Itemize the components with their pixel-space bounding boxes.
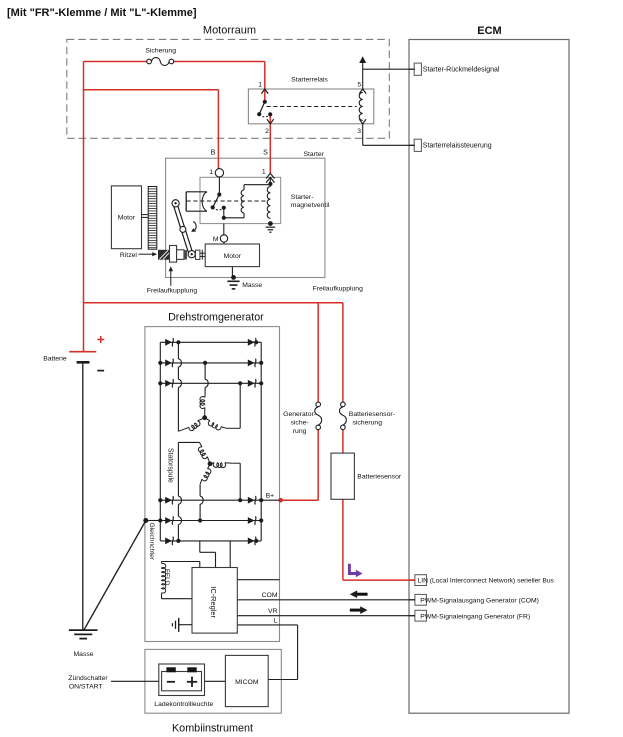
svg-text:Batteriesensor: Batteriesensor [357,473,402,480]
svg-text:Ritzel: Ritzel [120,252,137,259]
svg-text:PWM-Signalausgang Generator (C: PWM-Signalausgang Generator (COM) [420,598,539,605]
svg-text:PWM-Signaleingang Generator (F: PWM-Signaleingang Generator (FR) [420,614,530,621]
svg-text:Starterrelaissteuerung: Starterrelaissteuerung [423,143,492,150]
svg-text:Gleichrichter: Gleichrichter [148,523,155,561]
svg-text:Statorspule: Statorspule [166,448,173,483]
svg-text:1: 1 [209,169,213,176]
svg-text:Freilaufkupplung: Freilaufkupplung [147,287,197,294]
svg-text:5: 5 [357,81,361,88]
svg-text:Batterie: Batterie [43,356,67,363]
svg-text:magnetventil: magnetventil [291,202,330,209]
svg-text:S: S [263,150,268,157]
svg-text:Sicherung: Sicherung [145,48,176,55]
svg-text:Freilaufkupplung: Freilaufkupplung [313,285,363,292]
svg-text:3: 3 [357,128,361,135]
svg-text:ON/START: ON/START [69,684,103,691]
svg-text:B+: B+ [266,492,275,499]
svg-text:Starterrelais: Starterrelais [291,77,328,84]
svg-text:Starter-Rückmeldesignal: Starter-Rückmeldesignal [423,67,500,74]
svg-text:Starter-: Starter- [291,194,314,201]
svg-text:siche-: siche- [291,420,309,427]
svg-text:Zündschalter: Zündschalter [68,675,108,682]
svg-text:1: 1 [258,81,262,88]
svg-text:VR: VR [268,608,278,615]
svg-text:1: 1 [262,169,266,176]
svg-text:sicherung: sicherung [353,420,383,427]
svg-text:M: M [213,236,219,243]
svg-text:rung: rung [293,428,307,435]
svg-text:Masse: Masse [242,282,262,289]
svg-text:Generator-: Generator- [283,411,316,418]
svg-text:Motor: Motor [224,253,242,260]
svg-text:COM: COM [262,592,278,599]
svg-text:Motorraum: Motorraum [203,25,256,37]
svg-text:Starter: Starter [303,151,324,158]
svg-text:LIN (Local Interconnect Networ: LIN (Local Interconnect Network) seriell… [418,578,555,585]
svg-text:FELD: FELD [163,569,170,586]
svg-text:ECM: ECM [477,25,501,37]
svg-text:2: 2 [265,128,269,135]
svg-text:Kombiinstrument: Kombiinstrument [172,723,253,735]
svg-text:Motor: Motor [118,215,136,222]
svg-text:B: B [211,150,216,157]
svg-text:[Mit "FR"-Klemme / Mit "L"-Kle: [Mit "FR"-Klemme / Mit "L"-Klemme] [7,7,197,19]
svg-text:IC-Regler: IC-Regler [209,586,218,618]
svg-text:Masse: Masse [74,651,94,658]
svg-text:MICOM: MICOM [235,679,259,686]
svg-text:L: L [274,617,278,624]
svg-text:Drehstromgenerator: Drehstromgenerator [168,312,264,324]
svg-text:Batteriesensor-: Batteriesensor- [349,411,395,418]
svg-text:Ladekontrollleuchte: Ladekontrollleuchte [154,701,213,708]
